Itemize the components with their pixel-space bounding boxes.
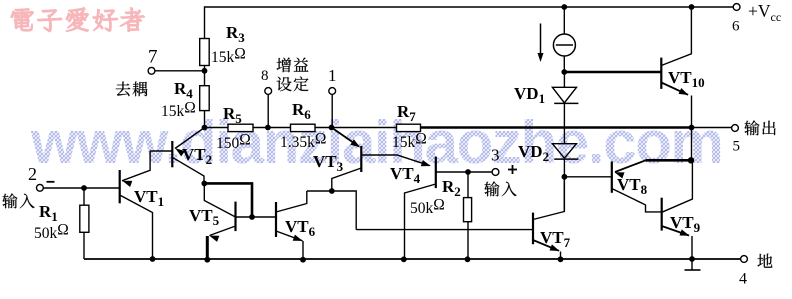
wire R1 bottom xyxy=(83,232,85,259)
label VD2 xyxy=(518,142,549,164)
wire R4-midrail xyxy=(204,111,206,128)
transistor VT8 collector xyxy=(612,189,662,212)
wire node to VT8 base xyxy=(564,176,611,178)
watermark web address xyxy=(30,109,723,176)
junction VT6 emitter rail xyxy=(300,257,306,263)
junction VT5 emitter rail xyxy=(204,257,210,263)
value R3 xyxy=(211,46,246,67)
wire VD2 down xyxy=(563,159,565,177)
wire pin4 xyxy=(0,0,1,1)
label VT3 xyxy=(313,152,344,174)
label input right xyxy=(484,181,516,196)
junction pin1 stub xyxy=(329,125,335,131)
current source wire bottom xyxy=(563,56,565,72)
value R7 xyxy=(392,131,427,152)
wire R2 bottom xyxy=(467,222,469,259)
label VT6 xyxy=(285,217,316,239)
junction output node xyxy=(689,125,695,131)
label VT4 xyxy=(390,164,421,186)
transistor VT3 emitter xyxy=(332,168,362,191)
label pin 7 xyxy=(148,47,158,68)
resistor R3 xyxy=(200,39,210,66)
label R1 xyxy=(39,202,58,224)
value R6 xyxy=(280,131,326,152)
label R2 xyxy=(442,177,461,199)
label pin 5 xyxy=(733,139,741,155)
junction rail ground xyxy=(689,256,695,262)
wire pin7 stub xyxy=(155,70,205,72)
junction pin8 stub xyxy=(265,125,271,131)
node top-left corner xyxy=(204,6,206,38)
plus sign xyxy=(508,165,517,174)
watermark brand xyxy=(11,8,145,32)
label R5 xyxy=(223,104,242,126)
current source wire top xyxy=(563,7,565,34)
transistor VT6 base bar xyxy=(275,202,277,237)
wire VD1-VD2 xyxy=(563,103,565,143)
resistor R6 xyxy=(291,124,316,131)
label input left xyxy=(2,193,34,208)
wire pin1 node to VT3 base arrow xyxy=(332,128,361,148)
resistor R7 xyxy=(397,124,421,131)
transistor VT5 emitter xyxy=(207,226,235,259)
junction VT4 emitter rail xyxy=(401,256,407,262)
pin 2 circle xyxy=(37,184,44,191)
label VT8 xyxy=(617,175,648,197)
label pin 6 xyxy=(732,19,740,35)
minus sign xyxy=(47,181,55,183)
value R5 xyxy=(216,132,251,153)
transistor VT1 base bar xyxy=(119,170,121,203)
wire node to VT7 collector xyxy=(563,177,565,212)
junction VT3 emitter node xyxy=(329,188,335,194)
transistor VT7 base bar xyxy=(532,213,534,245)
wire VT2 base xyxy=(150,150,172,152)
junction R2 top xyxy=(465,169,471,175)
transistor VT4 collector xyxy=(436,171,492,173)
label VD1 xyxy=(514,84,545,106)
junction VT1 collector rail xyxy=(150,256,156,262)
label decouple xyxy=(116,82,148,97)
transistor VT2 emitter xyxy=(175,128,205,157)
label pin 4 xyxy=(739,271,747,288)
junction VT2 collector node xyxy=(201,181,207,187)
transistor VT4 base bar xyxy=(435,157,437,189)
wire driver base xyxy=(356,229,533,231)
svg-text:www.dianziaihaozhe.com: www.dianziaihaozhe.com xyxy=(30,109,723,176)
label VT9 xyxy=(670,213,701,235)
junction VT7 emitter rail xyxy=(558,256,564,262)
transistor VT1 collector xyxy=(120,195,153,259)
label +Vcc xyxy=(748,1,781,24)
svg-text:1: 1 xyxy=(328,66,337,85)
wire R1 top xyxy=(83,188,85,205)
wire to VD1 xyxy=(563,72,565,87)
label output xyxy=(744,120,775,135)
transistor VT9 collector xyxy=(662,160,693,212)
pin 1 circle xyxy=(329,88,336,95)
transistor VT5 base bar xyxy=(234,202,236,232)
junction top rail at current source xyxy=(561,4,567,10)
transistor VT7 emitter xyxy=(533,240,561,259)
transistor VT9 emitter xyxy=(662,226,692,259)
wire node to VT5 collector xyxy=(204,183,235,217)
label ground name xyxy=(758,254,773,268)
wire pin8 stub xyxy=(267,94,269,127)
current direction arrow xyxy=(538,24,544,63)
label R4 xyxy=(174,79,193,101)
pin 5 circle xyxy=(732,125,739,132)
label R7 xyxy=(397,102,416,124)
transistor VT3 base bar xyxy=(360,146,362,172)
svg-text:3: 3 xyxy=(491,145,500,164)
transistor VT8 emitter bold xyxy=(615,160,692,178)
junction R4 bottom xyxy=(202,125,208,131)
resistor R4 xyxy=(200,86,210,111)
junction top rail at VT10 xyxy=(689,4,695,10)
transistor VT2 base bar xyxy=(171,141,173,167)
label pin 1 xyxy=(328,66,337,85)
transistor VT9 base bar xyxy=(661,198,663,231)
svg-text:5: 5 xyxy=(733,139,741,155)
transistor VT2 collector xyxy=(172,157,204,183)
value R4 xyxy=(161,100,196,121)
wire VT6-VT3 node xyxy=(307,190,332,192)
wire R5-R6 xyxy=(253,127,291,129)
junction VT8 emitter node xyxy=(688,157,694,163)
svg-text:2: 2 xyxy=(28,164,37,184)
resistor R5 xyxy=(228,124,253,131)
wire mirror base line xyxy=(236,216,277,218)
pin 8 circle xyxy=(265,88,272,95)
wire to pin 5 xyxy=(692,127,732,129)
junction diode bottom node xyxy=(562,174,568,180)
label VT7 xyxy=(540,228,571,250)
pin 6 circle xyxy=(733,4,740,11)
transistor VT4 emitter xyxy=(405,184,436,259)
label pin 8 xyxy=(261,68,269,84)
svg-text:6: 6 xyxy=(732,19,740,35)
resistor R2 xyxy=(464,198,472,222)
ground symbol xyxy=(685,259,701,270)
svg-text:7: 7 xyxy=(148,47,158,68)
label VT1 xyxy=(134,187,164,209)
label R6 xyxy=(292,100,311,122)
wire R2 top stub xyxy=(467,172,469,198)
pin 7 circle xyxy=(148,67,155,74)
wire output rail bold xyxy=(421,126,693,129)
label VT10 xyxy=(668,68,705,90)
transistor VT6 emitter xyxy=(276,231,303,259)
bottom emitter rail xyxy=(84,258,741,260)
value R2 xyxy=(410,197,445,218)
pin 4 circle xyxy=(741,256,748,263)
svg-text:8: 8 xyxy=(261,68,269,84)
wire R6-R7 xyxy=(315,127,397,129)
label R3 xyxy=(226,23,245,45)
value R1 xyxy=(34,222,69,243)
wire output to VT8 node xyxy=(691,128,693,161)
junction mirror base xyxy=(249,214,255,220)
transistor VT1 emitter xyxy=(122,151,150,187)
wire VT10 base bold xyxy=(564,71,661,74)
junction pin7 xyxy=(202,68,208,74)
transistor VT10 collector xyxy=(661,7,691,66)
svg-text:4: 4 xyxy=(739,271,747,288)
junction R2 rail xyxy=(465,256,471,262)
wire node to mirror base bold xyxy=(204,183,252,217)
transistor VT3 collector xyxy=(361,155,431,166)
label VT2 xyxy=(182,145,212,167)
pin 3 circle xyxy=(492,169,499,176)
transistor VT8 base bar xyxy=(611,161,613,192)
label VT5 xyxy=(189,206,220,228)
resistor R1 xyxy=(80,205,89,232)
junction R1 top xyxy=(81,185,87,191)
label pin 2 xyxy=(28,164,37,184)
current source circle xyxy=(553,34,575,56)
wire R3-R4 xyxy=(204,66,206,86)
wire node down to driver base xyxy=(332,191,356,230)
diode VD1 xyxy=(552,87,578,103)
diode VD2 xyxy=(552,144,578,159)
transistor VT6 collector xyxy=(276,191,307,212)
label gain-set xyxy=(277,58,309,92)
top supply rail xyxy=(205,6,734,8)
transistor VT10 emitter xyxy=(661,83,691,128)
junction VT10 base node xyxy=(561,69,567,75)
wire pin1 stub xyxy=(331,94,333,127)
transistor VT10 base bar xyxy=(660,58,662,89)
wire pin2 to VT1 base xyxy=(43,187,119,189)
wire mid rail left xyxy=(205,127,229,129)
label pin 3 xyxy=(491,145,500,164)
transistor VT7 collector xyxy=(533,177,564,220)
